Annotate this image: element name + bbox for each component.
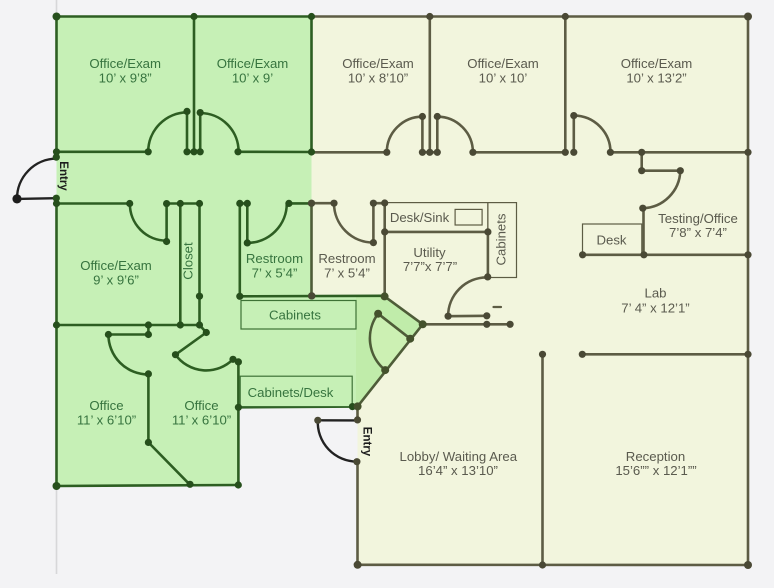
node hall wall right end (507, 321, 514, 328)
svg-text:Cabinets: Cabinets (493, 213, 508, 265)
node stub base x437 (434, 149, 441, 156)
svg-text:Cabinets: Cabinets (269, 307, 321, 322)
node top-left corner (53, 13, 61, 21)
node testing stub top (638, 167, 645, 174)
node hinge x198 (197, 109, 204, 116)
node desk-sink top left (381, 199, 388, 206)
testing door stub (640, 152, 643, 170)
restroom1 top wall stub (240, 202, 248, 205)
svg-text:Restroom: Restroom (246, 251, 303, 266)
node stub base x573 (570, 149, 577, 156)
node wall y325 left (53, 321, 60, 328)
node arc end x148 (145, 148, 152, 155)
svg-text:Office/Exam: Office/Exam (467, 56, 539, 71)
diagonal wall to bottom (148, 442, 189, 484)
office2 door leaf (176, 333, 207, 355)
node restroom2 stub top (370, 200, 377, 207)
node wall y152 x641 (638, 149, 645, 156)
desk box (583, 224, 642, 255)
svg-text:9’ x 9’6”: 9’ x 9’6” (93, 273, 139, 288)
wedge door swing sector (lighter) (370, 314, 410, 370)
svg-text:15’6”” x 12’1””: 15’6”” x 12’1”” (615, 463, 696, 478)
restroom1 door leaf (246, 203, 249, 243)
door stub office 10-10 (436, 117, 439, 153)
corridor top wall segment C (238, 151, 312, 154)
door arc office 13-2 (574, 116, 611, 153)
node restroom2 leaf tip (370, 239, 377, 246)
node testing leaf tip (677, 167, 684, 174)
entry door lobby arc (318, 420, 357, 461)
node closet left bottom (177, 321, 184, 328)
corridor bottom wall segment B (167, 202, 200, 205)
svg-text:Desk/Sink: Desk/Sink (390, 210, 450, 225)
utility door leaf (448, 314, 487, 317)
corridor top wall segment A (57, 151, 149, 154)
node restroom1 bottom left (236, 293, 243, 300)
lobby left wall upper (356, 406, 359, 420)
svg-text:Office: Office (89, 398, 123, 413)
node top wall x311 (308, 13, 315, 20)
svg-text:10’ x 8’10”: 10’ x 8’10” (348, 71, 408, 86)
svg-text:Reception: Reception (626, 449, 685, 464)
testing door leaf (642, 169, 681, 172)
desk-sink box (385, 203, 488, 232)
diagonal wall restroom2 corner to hall (385, 296, 423, 324)
office1 door stub (147, 325, 150, 335)
door leaf office 9x96 (165, 204, 168, 242)
node wall y152 right end (744, 149, 751, 156)
utility left wall (383, 203, 386, 296)
door arc office 10-10 (437, 117, 473, 153)
restroom2 top wall left (312, 202, 335, 205)
svg-text:11’ x 6’10”: 11’ x 6’10” (172, 413, 231, 428)
node closet left top (177, 200, 184, 207)
gray construction line above top-left corner (56, 0, 58, 17)
diagonal wall hall to lobby corner (358, 324, 423, 406)
node reception wall top (539, 351, 546, 358)
node restroom1 leaf tip (244, 239, 251, 246)
link to lobby corner (352, 405, 357, 408)
node arc end x386 (383, 149, 390, 156)
node green bottom right (235, 481, 242, 488)
node bottom-left corner (53, 482, 61, 490)
node wall base x429 (426, 149, 433, 156)
cabinets green box (241, 301, 356, 330)
svg-text:16’4” x 13’10”: 16’4” x 13’10” (418, 463, 498, 478)
lobby left wall lower (356, 462, 359, 565)
desk-sink bottom wall (385, 231, 488, 234)
reception wall (541, 354, 544, 565)
lobby bottom wall (358, 563, 748, 566)
corridor top wall cream segment C (473, 151, 565, 154)
node restroom2 hinge (330, 200, 337, 207)
svg-text:Office/Exam: Office/Exam (80, 258, 152, 273)
closet right wall (198, 204, 201, 326)
closet left wall (179, 204, 182, 326)
node left wall entry bottom (53, 195, 60, 202)
node office2 leaf tip (172, 351, 179, 358)
node lab bottom left (579, 351, 586, 358)
door stub right of double door (199, 113, 202, 152)
node wedge leaf tip (374, 310, 382, 318)
svg-text:Cabinets/Desk: Cabinets/Desk (248, 385, 334, 400)
node leaf tip x166 (163, 238, 170, 245)
node top wall x429 (426, 13, 433, 20)
node lobby top corner (354, 402, 362, 410)
cabinets-desk green box (240, 376, 352, 406)
node hinge x187 (183, 108, 190, 115)
node closet right bottom (196, 321, 203, 328)
restroom1 top wall right segment (289, 202, 312, 205)
wedge door leaf (378, 314, 410, 339)
node hinge x422 (419, 113, 426, 120)
wall between office 8-10 and 10-10 (428, 17, 431, 153)
node wall x148 diag top (145, 439, 152, 446)
green floor region (left wing rooms) (57, 17, 423, 487)
node desk-sink bottom left (381, 228, 388, 235)
node desk box bottom right (640, 251, 647, 258)
node closet right mid (196, 293, 203, 300)
node office2 hinge (203, 329, 210, 336)
restroom2 door arc (334, 203, 373, 242)
testing door arc (643, 171, 681, 209)
node left wall entry top (53, 154, 60, 161)
node wall base x194 (190, 148, 197, 155)
node front door top (354, 416, 361, 423)
top wall cream (312, 15, 749, 18)
restrooms bottom wall (240, 294, 385, 297)
office1 door leaf (108, 333, 148, 336)
node wedge right (419, 320, 427, 328)
wall between top green offices (193, 17, 196, 153)
svg-text:Lab: Lab (644, 286, 666, 301)
testing left wall (642, 208, 645, 255)
door arc office 8-10 (387, 117, 423, 153)
office2 door arc (176, 355, 234, 371)
node cabinets-desk wall left (235, 404, 242, 411)
svg-text:Office/Exam: Office/Exam (217, 56, 289, 71)
svg-text:Office/Exam: Office/Exam (342, 56, 414, 71)
node arc end x610 (607, 149, 614, 156)
node utility door hinge-tip (445, 313, 452, 320)
node corridor top left (53, 148, 60, 155)
svg-text:Desk: Desk (596, 233, 626, 248)
node desk box bottom left (579, 251, 586, 258)
restroom2 door leaf (372, 203, 375, 242)
node stub base x422 (419, 149, 426, 156)
cream floor region (right wing: offices, utility, testing, lab, lobby, reception) (312, 17, 749, 566)
svg-text:7’7”x 7’7”: 7’7”x 7’7” (403, 259, 457, 274)
svg-text:Restroom: Restroom (318, 251, 375, 266)
node wedge hinge (406, 335, 414, 343)
node restroom1 left top (236, 200, 243, 207)
wall between restrooms (310, 203, 313, 296)
svg-text:Entry: Entry (57, 161, 69, 191)
node wall x238 top (235, 358, 242, 365)
svg-text:10’ x 10’: 10’ x 10’ (479, 71, 528, 86)
node restroom boundary top (308, 200, 315, 207)
corridor bottom wall segment A (57, 202, 130, 205)
top wall green (57, 15, 312, 18)
node diag bottom (186, 481, 193, 488)
node top wall x565 (562, 13, 569, 20)
svg-text:Office/Exam: Office/Exam (89, 56, 161, 71)
door stub left of double door (186, 111, 189, 151)
node cabinets strip bottom (484, 273, 491, 280)
right outer wall (747, 17, 750, 566)
cabinets vertical box (488, 203, 517, 278)
node front door hinge (314, 417, 321, 424)
svg-text:Testing/Office: Testing/Office (658, 211, 738, 226)
office1 door arc (108, 335, 148, 375)
node testing arc end (639, 205, 646, 212)
left outer wall upper (55, 17, 58, 152)
node office1 stub top (145, 321, 152, 328)
svg-text:10’ x 13’2”: 10’ x 13’2” (626, 71, 686, 86)
cabinets strip left wall (487, 232, 490, 277)
door stub office 13-2 (572, 116, 575, 153)
door arc office 10x98 (148, 112, 187, 152)
lab top wall (583, 254, 748, 257)
node desk-sink bottom right (484, 228, 491, 235)
door arc office 9x96 (130, 204, 167, 241)
door arc office 10x9 (200, 113, 238, 152)
svg-text:7’ x 5’4”: 7’ x 5’4” (324, 266, 370, 281)
node restroom boundary bottom (308, 292, 315, 299)
node closet right top (196, 200, 203, 207)
node office1 leaf tip (105, 331, 112, 338)
svg-text:Office/Exam: Office/Exam (621, 56, 693, 71)
node restroom1 arc end (285, 200, 292, 207)
corridor top wall cream segment B (422, 151, 437, 154)
node office1 arc end (145, 370, 152, 377)
node front door arc end (353, 458, 360, 465)
office2 door hinge stub (200, 325, 207, 333)
hall wall y324 (423, 323, 510, 326)
green/cream boundary wall top (310, 17, 313, 153)
node restroom1 hinge (244, 200, 251, 207)
node lobby bottom left (354, 561, 362, 569)
node top-right corner (744, 13, 752, 21)
door stub office 8-10 (421, 117, 424, 153)
green bottom wall (57, 485, 239, 486)
node hinge x437 (434, 113, 441, 120)
svg-text:Lobby/ Waiting Area: Lobby/ Waiting Area (400, 449, 518, 464)
restroom1 door arc (247, 203, 286, 243)
entry door lobby leaf (318, 419, 358, 422)
sink small rect (455, 209, 482, 225)
node wedge top (381, 292, 389, 300)
node hinge x166 (163, 200, 170, 207)
node utility door right (483, 312, 490, 319)
node stub base x198 (197, 148, 204, 155)
svg-text:11’ x 6’10”: 11’ x 6’10” (77, 413, 136, 428)
node lab bottom right (744, 351, 751, 358)
svg-text:10’ x 9’8”: 10’ x 9’8” (99, 71, 152, 86)
node office1 hinge (145, 331, 152, 338)
lower right wall x238 (237, 362, 240, 485)
node bottom-right corner (744, 561, 752, 569)
utility door arc (448, 277, 487, 316)
entry door left arc (17, 159, 56, 199)
node restroom2 bottom left (308, 292, 315, 299)
svg-text:Utility: Utility (413, 245, 446, 260)
svg-text:7’ x 5’4”: 7’ x 5’4” (252, 266, 298, 281)
node reception wall bottom (539, 561, 546, 568)
restroom1 left wall (239, 203, 242, 296)
svg-text:Closet: Closet (180, 242, 195, 280)
svg-text:7’ 4” x 12’1”: 7’ 4” x 12’1” (621, 300, 689, 315)
node hinge x573 (570, 112, 577, 119)
node hall wall x486 (483, 321, 490, 328)
node top wall x194 (190, 13, 197, 20)
node arc end x473 (469, 149, 476, 156)
node office2 arc end (229, 356, 236, 363)
node corridor bottom left (53, 200, 60, 207)
cabinets-desk bottom wall (238, 405, 352, 408)
svg-text:7’8” x 7’4”: 7’8” x 7’4” (669, 225, 727, 240)
left outer wall lower (55, 198, 58, 486)
svg-text:10’ x 9’: 10’ x 9’ (232, 71, 273, 86)
corridor top wall cream segment A (312, 151, 387, 154)
node lab top right (744, 251, 751, 258)
node wall x565 base (562, 149, 569, 156)
gray construction line below bottom-left corner (56, 486, 58, 574)
svg-text:Entry: Entry (360, 427, 372, 457)
node stub base x187 (183, 148, 190, 155)
wedge hallway medium green (356, 296, 423, 406)
wedge door arc (370, 314, 385, 370)
wall y325 left (57, 324, 200, 327)
corridor top wall cream segment D (610, 151, 748, 154)
node door opening x129 (126, 200, 133, 207)
wall between lower offices (147, 374, 150, 443)
node restroom2 left top (308, 200, 315, 207)
node cabinets-desk wall right (349, 403, 356, 410)
lab bottom wall (582, 353, 748, 356)
node arc end x238 (234, 148, 241, 155)
small dash symbol (494, 306, 502, 308)
entry door left leaf (17, 197, 56, 200)
node wedge arc end (381, 366, 389, 374)
wall between office 10-10 and 13-2 (564, 17, 567, 153)
node boundary y152 (308, 148, 315, 155)
restroom2 top wall right (373, 202, 384, 205)
node entry leaf tip (12, 194, 21, 203)
svg-text:Office: Office (184, 398, 218, 413)
corridor top wall segment B (187, 151, 200, 154)
